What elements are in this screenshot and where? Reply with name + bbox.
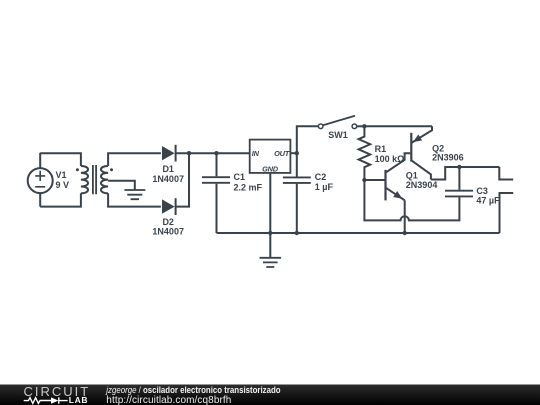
wire Q2 collector to output node [431,167,499,180]
wire OUT to node [290,152,296,154]
svg-text:9 V: 9 V [56,180,70,190]
logo doodle resistor+diode [24,397,68,403]
node C2 on rail [295,231,299,235]
svg-text:D1: D1 [162,164,174,174]
capacitor C2 [283,153,311,233]
svg-text:D2: D2 [162,217,174,227]
svg-text:R1: R1 [375,144,387,154]
svg-text:GND: GND [262,165,279,174]
diode D2 [162,198,176,215]
node R1/Q1 base [362,178,366,182]
transformer T1 primary coil [81,166,88,193]
node D2/D1 junction [187,151,191,155]
svg-text:Q1: Q1 [406,170,418,180]
top rail to Q2 emitter [364,125,432,127]
transistor Q1 2N3904 (NPN) [386,153,411,200]
wire Q1 emitter to rail [404,200,406,233]
feedback wire node to C3 bottom (with hop) [364,180,459,220]
svg-text:OUT: OUT [274,149,291,158]
svg-text:47 µF: 47 µF [476,195,500,205]
resistor R1 [359,126,371,180]
wire D2 up to D1 node [176,153,189,206]
node C1 tap [214,151,218,155]
switch SW1 [318,116,356,129]
svg-text:2N3904: 2N3904 [406,180,438,190]
svg-text:V1: V1 [56,170,67,180]
wire node up to SW1 [297,126,319,153]
capacitor C1 [202,153,230,233]
svg-text:1N4007: 1N4007 [152,174,184,184]
transformer phase dot secondary [110,168,113,171]
svg-text:SW1: SW1 [328,130,348,140]
ground (main rail) [260,233,282,267]
regulator GND pin wire [269,173,271,233]
wire SW1 to R1 node [357,125,365,127]
svg-text:jzgeorge / oscilador electroni: jzgeorge / oscilador electronico transis… [105,385,280,396]
node ground rail [268,231,272,235]
diode D1 [162,145,176,162]
voltage source V1 [28,153,53,207]
transformer phase dot primary [76,168,79,171]
svg-text:C2: C2 [315,172,327,182]
node Q2 collector/C3 [457,165,461,169]
transformer T1 secondary coil [101,166,108,193]
svg-text:LAB: LAB [69,395,88,405]
svg-text:C1: C1 [234,172,246,182]
wire V1 top to transformer primary [40,153,81,166]
wire D1 to regulator IN [176,152,250,154]
svg-text:IN: IN [252,149,260,158]
output stub top [499,167,513,180]
capacitor C3 [445,167,473,196]
footer bar [0,385,540,405]
transistor Q2 2N3906 (PNP) [411,126,432,179]
svg-text:2N3906: 2N3906 [432,153,464,163]
node SW1/R1/Q2 [362,124,366,128]
svg-text:1N4007: 1N4007 [152,227,184,237]
svg-text:100 kΩ: 100 kΩ [375,154,405,164]
wire secondary bottom to D2 [108,193,161,206]
ground (center tap) [124,190,145,199]
voltage regulator U1 box [250,140,291,173]
wire center tap to ground [108,181,135,190]
wire V1 bottom to transformer primary [40,193,81,206]
wire base lead Q1 [364,179,385,181]
output stub bottom [500,193,514,233]
node OUT/SW1/C2 [295,151,299,155]
svg-text:2.2 mF: 2.2 mF [234,182,263,192]
wire secondary top to D1 [108,153,161,166]
svg-text:http://circuitlab.com/cq8brfh: http://circuitlab.com/cq8brfh [106,395,231,405]
node Q1 emitter on rail [403,231,407,235]
main ground rail [217,232,500,234]
byline [105,385,280,396]
svg-text:1 µF: 1 µF [315,182,334,192]
transformer core [93,165,96,194]
